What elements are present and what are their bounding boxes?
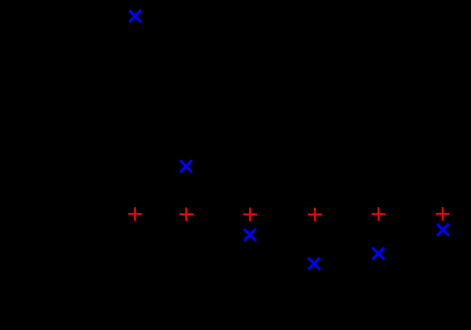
data point series-x P4	[308, 258, 320, 270]
data point series-x P2	[180, 160, 192, 172]
data point series-x P6	[437, 224, 449, 236]
data point series-plus P6	[436, 207, 450, 221]
data point series-x P5	[372, 248, 384, 260]
data point series-x P1	[129, 10, 141, 22]
data point series-plus P4	[308, 208, 322, 222]
data point series-plus P5	[372, 207, 386, 221]
data point series-plus P3	[243, 208, 257, 222]
data point series-plus P2	[179, 208, 193, 222]
data point series-x P3	[244, 229, 256, 241]
data point series-plus P1	[128, 207, 142, 221]
